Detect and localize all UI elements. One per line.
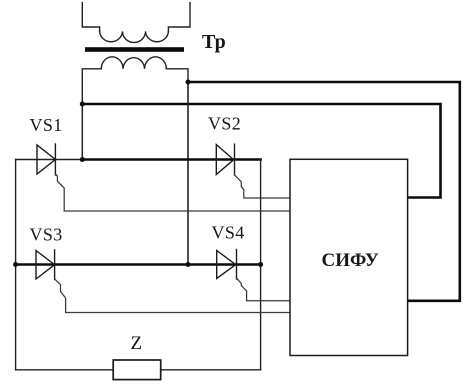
junction dot: VS3-VS4 midpoint (186, 262, 191, 267)
load Z box (113, 360, 161, 380)
thyristor VS2 (216, 144, 234, 175)
wire VS1 anode from left rail (16, 159, 83, 161)
VS1 gate wire (55, 174, 290, 211)
VS2 gate wire (235, 175, 291, 198)
wire bottom to load (16, 369, 114, 371)
wire left DC rail (15, 160, 17, 370)
transformer secondary winding (82, 69, 101, 104)
wire mid vertical (right terminal down to VS3/VS4 row) (187, 82, 189, 265)
junction dot: left rail / VS3 anode (13, 262, 18, 267)
wire left terminal down to VS1 row (81, 104, 83, 160)
wire load to right vertical (161, 369, 261, 371)
wire bottom row thick (VS3/VS4 row) (16, 263, 261, 266)
junction dot: VS4 cathode / right vertical (258, 262, 263, 267)
VS4 gate wire (237, 278, 291, 301)
thyristor VS3 (36, 250, 55, 280)
svg-text:VS3: VS3 (30, 225, 63, 245)
VS3 gate wire (55, 279, 290, 313)
svg-text:VS2: VS2 (208, 114, 241, 134)
junction dot: VS1-VS2 midpoint (80, 157, 85, 162)
svg-text:Тр: Тр (202, 31, 226, 53)
junction dot: right terminal / sync line (186, 80, 191, 85)
wire top row thick (VS1 cathode to VS2 and beyond) (82, 158, 260, 161)
block SIFU (290, 159, 408, 355)
transformer core (85, 47, 184, 52)
wire right DC vertical (VS2 cathode down to load) (260, 160, 262, 370)
thyristor VS1 (37, 144, 55, 175)
svg-text:Z: Z (131, 333, 143, 354)
svg-text:СИФУ: СИФУ (322, 250, 379, 271)
svg-text:VS1: VS1 (30, 115, 63, 135)
wire sync line (from right secondary terminal) (188, 82, 460, 301)
svg-text:VS4: VS4 (212, 223, 245, 243)
transformer T primary winding (82, 3, 99, 32)
thyristor VS4 (217, 250, 237, 280)
wire sync bus upper (from left secondary terminal) (82, 104, 440, 198)
junction dot: left terminal / sync bus (80, 102, 85, 107)
